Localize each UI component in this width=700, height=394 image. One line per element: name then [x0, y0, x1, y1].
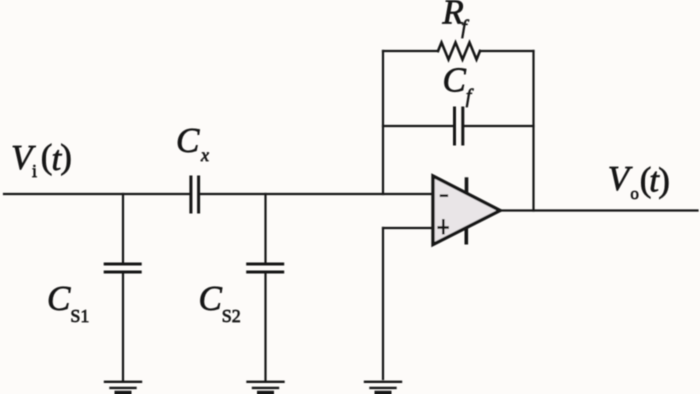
svg-text:C: C [199, 279, 223, 318]
svg-text:o: o [630, 184, 639, 203]
svg-text:): ) [658, 161, 670, 200]
svg-text:S2: S2 [222, 306, 241, 326]
svg-text:i: i [32, 161, 37, 181]
svg-text:x: x [200, 145, 209, 165]
svg-text:C: C [176, 121, 200, 160]
svg-text:C: C [443, 61, 467, 100]
svg-text:V: V [608, 159, 633, 198]
svg-text:): ) [60, 137, 72, 176]
svg-text:S1: S1 [70, 306, 89, 326]
svg-text:C: C [47, 279, 71, 318]
